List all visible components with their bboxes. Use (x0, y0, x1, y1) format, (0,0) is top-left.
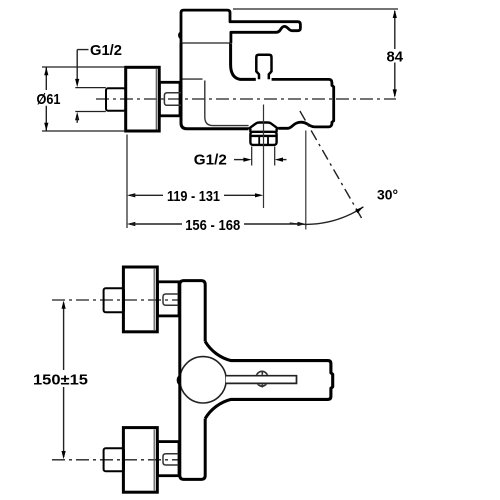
escutcheon side view (126, 67, 160, 131)
middle G1/2 extension lines (252, 147, 275, 166)
G1/2 extension lines from pipe (75, 88, 106, 112)
handle outline (181, 10, 300, 43)
svg-text:Ø61: Ø61 (37, 91, 61, 108)
svg-text:30°: 30° (377, 186, 398, 202)
diverter knob front (small ellipse) (256, 371, 268, 386)
centerline bottom union (52, 459, 179, 461)
150±15 dimension (63, 303, 65, 457)
svg-text:119 - 131: 119 - 131 (167, 188, 220, 205)
wall pipe side view (106, 88, 126, 110)
bottom pipe front view (104, 448, 124, 471)
top nut front (158, 282, 180, 316)
svg-text:G1/2: G1/2 (90, 42, 122, 59)
top escutcheon front (123, 267, 157, 332)
aerator dome (249, 123, 279, 129)
top pipe front view (104, 288, 124, 312)
body front view (180, 281, 205, 480)
diverter knob (256, 55, 271, 80)
30 deg arc (290, 207, 364, 225)
svg-text:156 - 168: 156 - 168 (185, 217, 240, 234)
nut side view (159, 82, 180, 116)
right extension line (spout tip) (305, 131, 307, 230)
lever front (thin rect) (226, 375, 296, 384)
inner thin contour (183, 78, 203, 80)
30 deg diagonal dash-dot (300, 111, 362, 218)
outlet axis line (263, 105, 265, 209)
diverter knob axis ticks (261, 371, 263, 388)
svg-text:150±15: 150±15 (33, 372, 88, 389)
aerator dome side walls (250, 129, 276, 133)
spout barrel front view (205, 342, 333, 419)
84 extension line (233, 8, 398, 10)
bottom escutcheon inner line (153, 429, 155, 490)
G1/2 leader + arrows (77, 50, 88, 83)
aerator nut (250, 132, 276, 145)
top stub front (163, 294, 180, 305)
centerline side view (96, 98, 396, 100)
left extension line for 119/156 (126, 135, 128, 229)
156-168 dimension (127, 222, 135, 226)
svg-text:G1/2: G1/2 (194, 152, 227, 169)
svg-text:84: 84 (387, 49, 404, 66)
middle G1/2 dim with outside arrows (234, 159, 248, 161)
escutcheon inner thin line (155, 69, 157, 130)
body outline left (181, 43, 249, 129)
handle seam bump (179, 32, 181, 38)
84 dimension line (394, 11, 396, 96)
stub side view (164, 93, 181, 106)
bottom stub front (163, 454, 180, 465)
bottom nut front (158, 442, 180, 476)
119-131 dimension (127, 193, 135, 197)
body outline right (272, 79, 334, 128)
valve cap circle front (180, 357, 226, 403)
bottom escutcheon front (123, 428, 157, 493)
top escutcheon inner line (153, 269, 155, 330)
body outline top/left of knob (231, 43, 256, 79)
front seam bump (178, 376, 180, 384)
handle joint line (181, 42, 230, 44)
Ø61 dimension line (45, 67, 47, 131)
Ø61 extension lines (42, 67, 125, 131)
centerline top union (52, 299, 179, 301)
